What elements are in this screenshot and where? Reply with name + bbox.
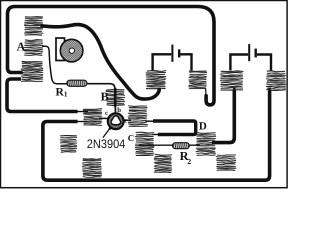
- spring terminal block (top-left): [24, 16, 43, 36]
- spare spring block bottom right: [216, 154, 236, 171]
- wire: thick U-link from emitter spring to C spring: [146, 120, 155, 122]
- wire: thick U-link body: [153, 121, 196, 135]
- battery B1 positive plate: [171, 45, 173, 62]
- battery B2 negative plate: [254, 49, 256, 58]
- resistor R1 lead right to B spring and transistor base: [87, 84, 115, 89]
- svg-text:e: e: [124, 117, 127, 125]
- wire end tip into battery2 left spring: [233, 88, 236, 93]
- resistor R2 body: [173, 143, 190, 149]
- svg-text:C: C: [128, 133, 135, 143]
- spring terminal block B: [106, 89, 125, 106]
- spring terminal block battery1 left: [146, 70, 166, 90]
- svg-text:2N3904: 2N3904: [87, 137, 126, 151]
- resistor R1 body: [67, 80, 87, 86]
- page background: [0, 0, 288, 189]
- lead: A-upper spring down to R1 left: [42, 46, 67, 83]
- svg-text:B: B: [101, 89, 109, 103]
- lead: emitter to spring: [124, 119, 131, 121]
- wire: battery2 left spring down to D spring: [212, 90, 234, 143]
- spare spring block left of 2N3904: [60, 135, 77, 153]
- base wire into B spring: [114, 88, 117, 107]
- battery B2 left lead: [230, 55, 248, 71]
- pointer line to 2N3904 label: [103, 129, 110, 138]
- wire tip: bottom-rail thin end into collector spring: [77, 121, 87, 123]
- svg-text:A: A: [17, 39, 26, 53]
- transistor base lead: [114, 107, 116, 113]
- spring terminal block C: [135, 132, 154, 156]
- lead: R2 run from C spring to D spring: [139, 144, 200, 146]
- spring terminal block A lower: [21, 61, 43, 82]
- svg-text:b: b: [117, 107, 121, 114]
- svg-text:c: c: [105, 110, 108, 117]
- spring terminal block battery2 left: [220, 71, 243, 92]
- speaker body: [60, 39, 83, 62]
- spare spring block bottom left-middle: [82, 158, 101, 178]
- battery B2 right lead: [257, 55, 271, 71]
- transistor Q1 2N3904 body: [108, 113, 124, 129]
- spring terminal block battery1 right: [189, 70, 207, 90]
- outer thin frame: [1, 1, 288, 188]
- battery B1 negative plate: [178, 49, 180, 57]
- wire tip: hook end into battery1 right spring: [205, 89, 208, 97]
- battery B1 right lead: [180, 54, 191, 70]
- svg-text:1: 1: [64, 90, 68, 99]
- wire: long bottom rail from collector spring around bottom to battery2 right spring: [43, 91, 270, 181]
- transistor case tab (inner): [111, 116, 121, 125]
- svg-text:2: 2: [187, 157, 191, 166]
- wire tip: U-wire thin end into collector spring: [77, 111, 88, 113]
- lead: collector to spring: [99, 117, 108, 119]
- spring terminal block (emitter node): [128, 105, 147, 127]
- battery B2 positive plate: [248, 44, 250, 61]
- speaker center hole: [69, 48, 74, 53]
- wire: U-wire from A-lower spring down-left to collector spring: [7, 79, 78, 112]
- spring terminal block A upper: [24, 39, 43, 56]
- wire tip into C spring: [153, 134, 159, 136]
- wire: long border wire from A-lower spring around top to battery1 right spring (J-hook): [8, 7, 215, 105]
- battery B1 left lead: [153, 54, 172, 70]
- wire end tip into battery2 right spring: [268, 88, 271, 93]
- spring terminal block (collector node): [83, 108, 102, 126]
- speaker bracket: [56, 38, 65, 61]
- spare spring block bottom middle: [154, 154, 172, 173]
- svg-text:D: D: [199, 120, 207, 132]
- spring terminal block battery2 right: [266, 71, 285, 92]
- wire: thick S-curve from top-left spring over speaker down to battery1 left spring: [42, 25, 159, 100]
- spring terminal block D: [196, 132, 216, 156]
